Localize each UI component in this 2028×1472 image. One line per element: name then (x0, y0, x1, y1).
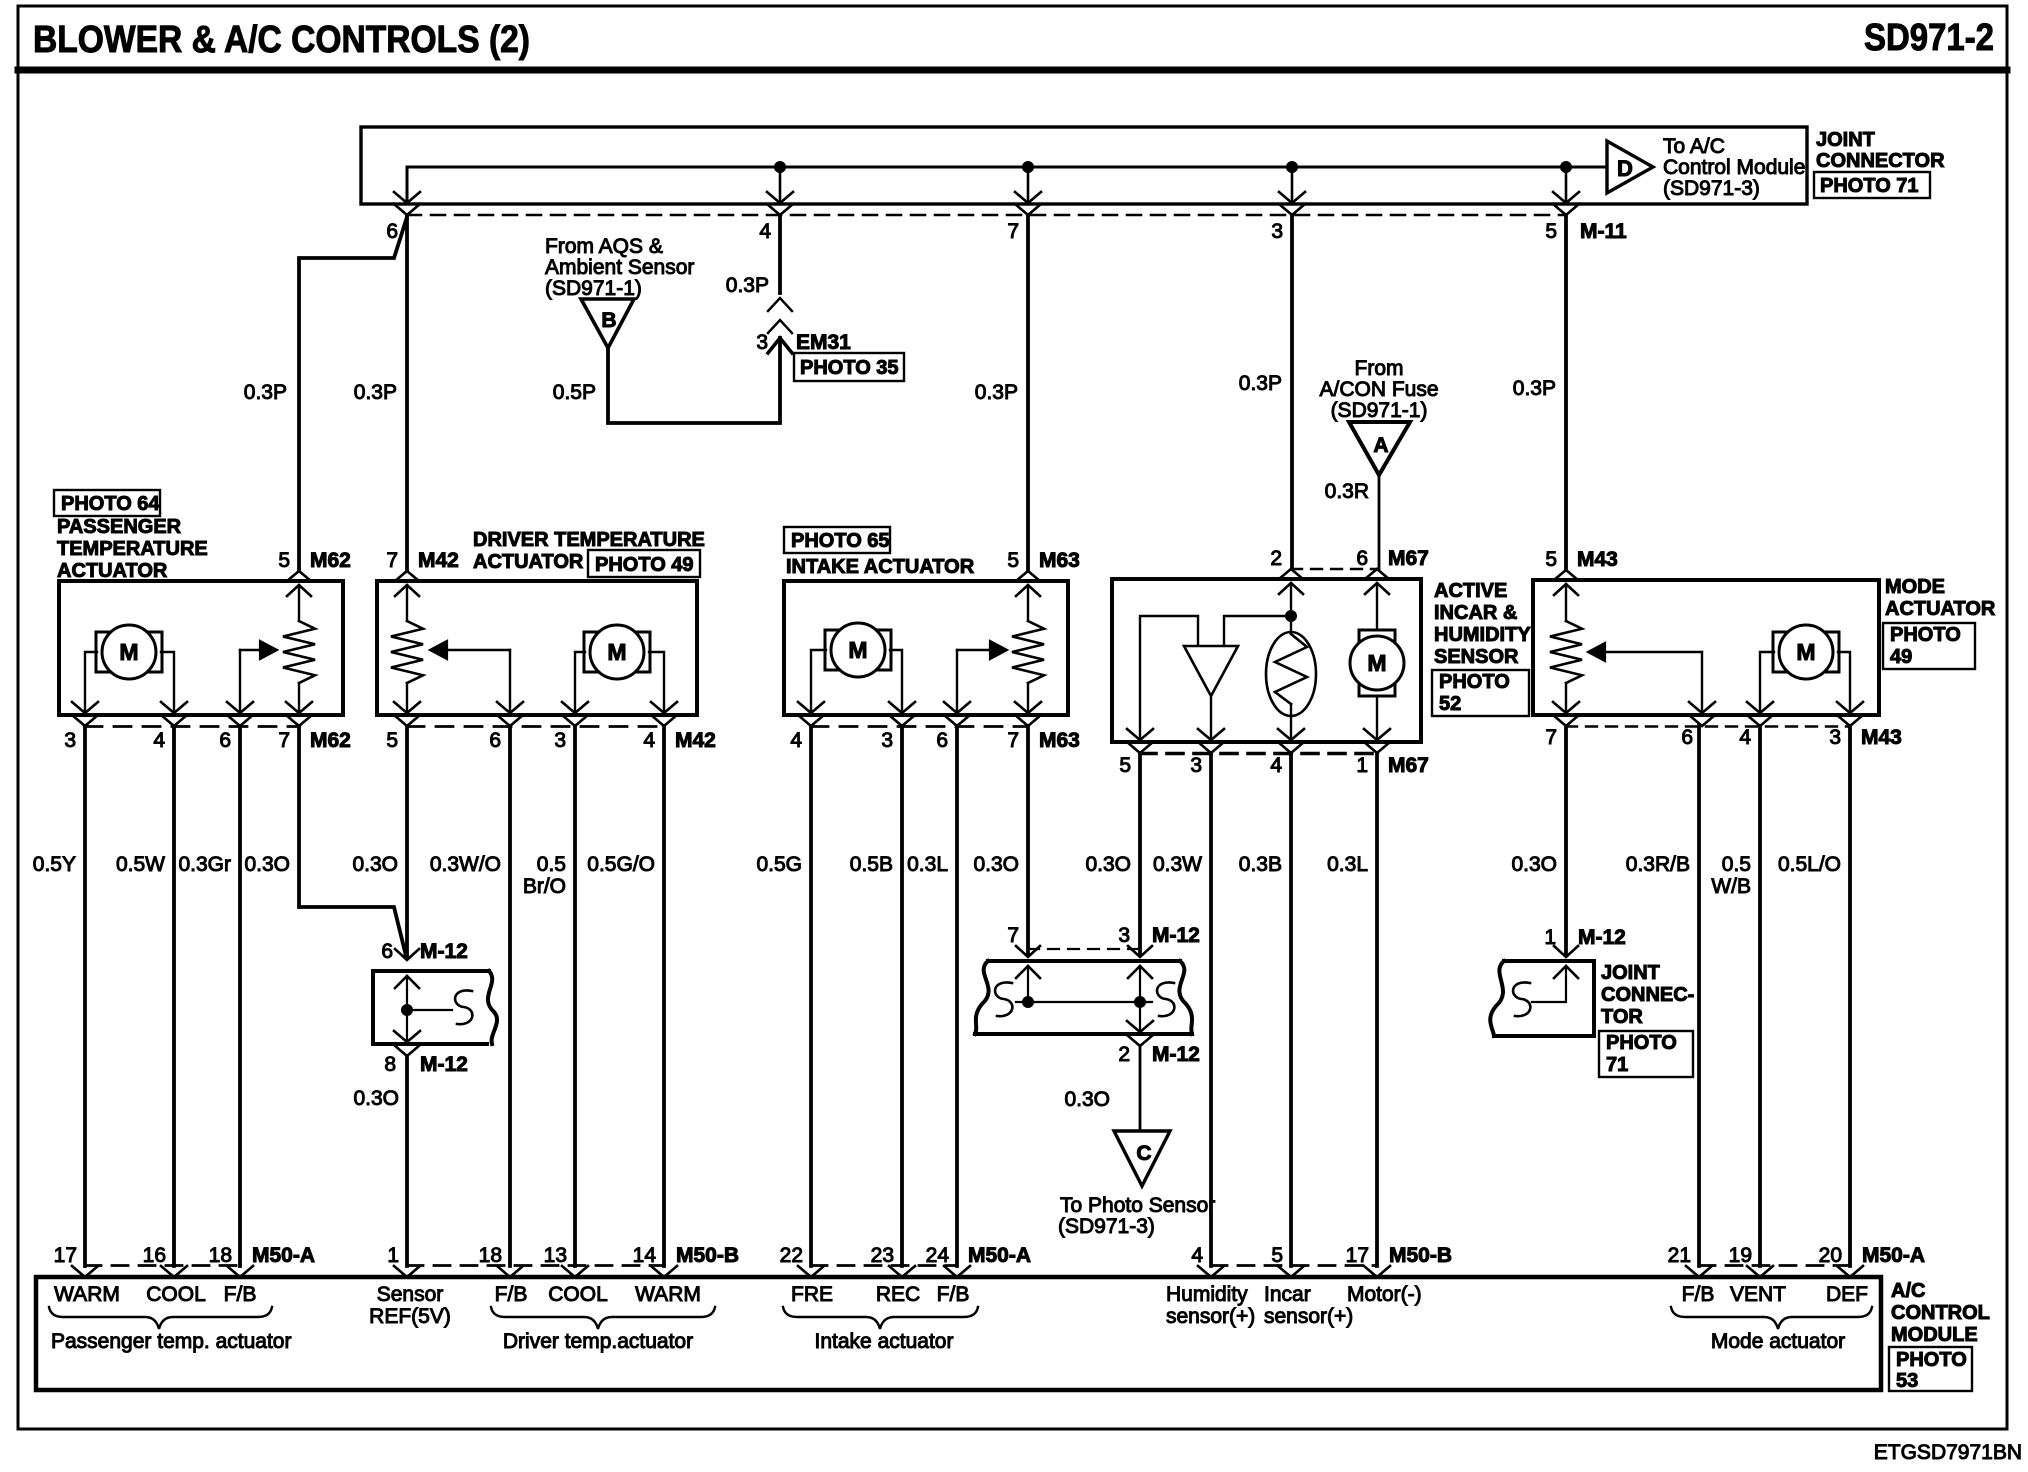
svg-text:HUMIDITY: HUMIDITY (1434, 624, 1531, 646)
wiper arrow in M42 (509, 650, 511, 713)
svg-text:PHOTO: PHOTO (1890, 624, 1961, 646)
module pin 23 (889, 1266, 915, 1277)
svg-text:INCAR &: INCAR & (1434, 602, 1517, 624)
svg-text:5: 5 (1271, 1244, 1283, 1267)
wire M42 pin5 to M-12 pin6 (0.3O) (405, 726, 409, 956)
svg-text:CONNECTOR: CONNECTOR (1816, 150, 1945, 172)
pin 6 top connector (1365, 569, 1389, 579)
pin 7 bottom connector (1015, 702, 1041, 713)
svg-text:6: 6 (936, 729, 948, 752)
wire x=85 down (83, 726, 87, 1266)
svg-text:PASSENGER: PASSENGER (57, 516, 182, 538)
wire x=1291 down (1289, 753, 1293, 1266)
svg-text:3: 3 (881, 729, 893, 752)
wire M62 motor right to pin4 (161, 652, 174, 713)
svg-text:sensor(+): sensor(+) (1166, 1305, 1255, 1328)
svg-text:7: 7 (278, 729, 290, 752)
header divider line (18, 67, 2007, 74)
wire M-12 pin2 to triangle C (0.3O) (1139, 1046, 1142, 1131)
bus drop wire x=1028 (1027, 167, 1030, 203)
svg-text:0.5W: 0.5W (116, 853, 165, 876)
bus pin 7 arrow (M-11) (1015, 192, 1041, 203)
M63 bottom dashed line (811, 725, 1028, 728)
svg-text:PHOTO 64: PHOTO 64 (61, 493, 160, 515)
svg-text:5: 5 (1119, 754, 1131, 777)
svg-text:WARM: WARM (635, 1283, 701, 1306)
pin 7 top connector (395, 571, 419, 581)
module connector dashed line 811-957 (811, 1264, 957, 1267)
svg-text:14: 14 (633, 1244, 657, 1267)
svg-text:6: 6 (381, 940, 393, 963)
svg-text:4: 4 (759, 220, 771, 243)
motor M in M63 (825, 630, 838, 670)
svg-text:22: 22 (780, 1244, 803, 1267)
svg-text:19: 19 (1729, 1244, 1752, 1267)
svg-text:Motor(-): Motor(-) (1347, 1283, 1422, 1306)
wiper arrow in M63 (956, 650, 958, 713)
svg-text:M-11: M-11 (1580, 220, 1627, 243)
incar thermistor (ellipse with zigzag) (1266, 632, 1316, 716)
pin 3 bottom connector (72, 702, 98, 713)
module connector dashed line 1211-1377 (1211, 1264, 1377, 1267)
svg-text:(SD971-1): (SD971-1) (545, 277, 642, 300)
bus inner wire (407, 167, 1605, 204)
svg-text:0.3R/B: 0.3R/B (1626, 853, 1690, 876)
svg-text:3: 3 (1190, 754, 1202, 777)
svg-text:Mode actuator: Mode actuator (1711, 1330, 1845, 1353)
svg-text:M50-A: M50-A (968, 1244, 1031, 1267)
bus junction dot x=1566 (1561, 162, 1572, 173)
wire M-12 pin8 to module pin1 (0.3O) (405, 1056, 409, 1266)
svg-text:53: 53 (1896, 1370, 1918, 1392)
pin 3 bottom connector (562, 702, 588, 713)
svg-text:To Photo Sensor: To Photo Sensor (1060, 1194, 1215, 1217)
svg-text:M62: M62 (310, 549, 351, 572)
A/C control module box (36, 1277, 1881, 1390)
svg-text:0.5: 0.5 (537, 853, 566, 876)
M67 wire: junction to humidity triangle (1224, 616, 1291, 646)
resistor in M43 (1565, 584, 1567, 621)
svg-text:5: 5 (278, 549, 290, 572)
svg-text:JOINT: JOINT (1816, 129, 1875, 151)
svg-text:0.5: 0.5 (1722, 853, 1751, 876)
svg-text:0.3P: 0.3P (726, 274, 769, 297)
svg-text:0.5G: 0.5G (756, 853, 802, 876)
wire x=811 down (809, 726, 813, 1266)
svg-text:Ambient Sensor: Ambient Sensor (545, 256, 694, 279)
svg-text:20: 20 (1819, 1244, 1842, 1267)
svg-text:0.3W: 0.3W (1153, 853, 1202, 876)
M67 bottom dashed line (bold) (1140, 752, 1377, 756)
bus junction dot x=1028 (1023, 162, 1034, 173)
svg-text:0.3O: 0.3O (244, 853, 290, 876)
svg-text:0.3O: 0.3O (353, 1087, 399, 1110)
svg-text:0.3R: 0.3R (1325, 480, 1369, 503)
svg-text:M43: M43 (1861, 726, 1902, 749)
svg-text:PHOTO: PHOTO (1896, 1349, 1967, 1371)
svg-text:17: 17 (54, 1244, 77, 1267)
label box PHOTO 35 (794, 353, 904, 381)
svg-text:REC: REC (876, 1283, 920, 1306)
svg-text:M67: M67 (1388, 547, 1429, 570)
svg-text:ACTUATOR: ACTUATOR (473, 551, 584, 573)
bus drop wire x=1292 (1291, 167, 1294, 203)
svg-text:COOL: COOL (548, 1283, 608, 1306)
svg-text:3: 3 (1829, 726, 1841, 749)
svg-text:A/C: A/C (1891, 1280, 1925, 1302)
wire: bus pin3 to M67 pin2 (0.3P) (1290, 215, 1294, 569)
resistor in M42 (406, 585, 408, 621)
svg-text:M: M (607, 639, 626, 665)
pin 2 top connector (1279, 569, 1303, 579)
svg-text:M-12: M-12 (1578, 926, 1626, 949)
module pin 18 (227, 1266, 253, 1277)
svg-text:5: 5 (1545, 548, 1557, 571)
M-12 middle top dashed (1028, 948, 1140, 950)
svg-text:(SD971-3): (SD971-3) (1058, 1215, 1155, 1238)
svg-text:From: From (1355, 357, 1404, 380)
module pin 19 (1747, 1266, 1773, 1277)
svg-text:EM31: EM31 (796, 331, 851, 354)
svg-text:24: 24 (926, 1244, 950, 1267)
M67 wire: pin5 feed to humidity triangle (1140, 616, 1198, 740)
svg-text:F/B: F/B (495, 1283, 528, 1306)
svg-text:INTAKE ACTUATOR: INTAKE ACTUATOR (786, 556, 975, 578)
module pin 5 (1278, 1266, 1304, 1277)
bus junction dot x=780 (775, 162, 786, 173)
svg-text:ACTUATOR: ACTUATOR (1885, 598, 1996, 620)
module pin 18 (497, 1266, 523, 1277)
svg-text:71: 71 (1606, 1054, 1628, 1076)
bus drop wire x=780 (779, 167, 782, 203)
svg-text:M63: M63 (1039, 729, 1080, 752)
svg-text:CONTROL: CONTROL (1891, 1302, 1990, 1324)
joint connector M-11 bus box (361, 127, 1807, 204)
svg-text:17: 17 (1346, 1244, 1369, 1267)
svg-text:M50-A: M50-A (252, 1244, 315, 1267)
humidity sensor triangle (1184, 646, 1238, 696)
wire M63 motor left to pin4 (811, 650, 826, 713)
svg-text:4: 4 (1191, 1244, 1203, 1267)
pin 5 bottom connector (1127, 729, 1153, 740)
svg-text:0.3O: 0.3O (1085, 853, 1131, 876)
svg-text:BLOWER & A/C CONTROLS (2): BLOWER & A/C CONTROLS (2) (33, 19, 530, 61)
svg-text:6: 6 (1356, 547, 1368, 570)
motor M in M42 (584, 632, 597, 672)
actuator M63 labels (784, 527, 890, 553)
svg-text:18: 18 (209, 1244, 232, 1267)
wire x=1699 down (1697, 726, 1701, 1266)
wire x=1377 down (1375, 753, 1379, 1266)
svg-text:FRE: FRE (791, 1283, 833, 1306)
svg-text:4: 4 (1270, 754, 1282, 777)
svg-text:Sensor: Sensor (377, 1283, 444, 1306)
svg-text:M43: M43 (1577, 548, 1618, 571)
svg-text:B: B (601, 309, 616, 332)
svg-text:0.3Gr: 0.3Gr (178, 853, 231, 876)
svg-text:0.3O: 0.3O (352, 853, 398, 876)
svg-text:3: 3 (756, 331, 768, 354)
svg-text:0.3O: 0.3O (1064, 1088, 1110, 1111)
svg-text:0.5B: 0.5B (850, 853, 893, 876)
brace: mode actuator group (1671, 1307, 1872, 1329)
svg-text:PHOTO 65: PHOTO 65 (791, 530, 890, 552)
svg-text:M50-B: M50-B (1389, 1244, 1452, 1267)
module pin 24 (944, 1266, 970, 1277)
M42 bottom dashed line (407, 725, 664, 728)
svg-text:4: 4 (1739, 726, 1751, 749)
svg-text:WARM: WARM (54, 1283, 120, 1306)
svg-text:0.3L: 0.3L (1327, 853, 1368, 876)
svg-text:DRIVER TEMPERATURE: DRIVER TEMPERATURE (473, 529, 705, 551)
svg-text:W/B: W/B (1711, 875, 1751, 898)
wire x=510 down (508, 726, 512, 1266)
wire: triangle B to EM31 (0.5P) (608, 338, 780, 423)
svg-text:M63: M63 (1039, 549, 1080, 572)
pin 1 bottom connector (1364, 729, 1390, 740)
pin 4 bottom connector (161, 702, 187, 713)
wire x=902 down (900, 726, 904, 1266)
svg-text:COOL: COOL (146, 1283, 206, 1306)
svg-text:Incar: Incar (1264, 1283, 1311, 1306)
actuator M62 box (59, 581, 343, 715)
pin 6 bottom connector (1689, 702, 1715, 713)
svg-text:21: 21 (1668, 1244, 1691, 1267)
pin 6 bottom connector (227, 702, 253, 713)
wire x=174 down (172, 726, 176, 1266)
svg-text:0.3L: 0.3L (907, 853, 948, 876)
svg-text:0.3W/O: 0.3W/O (430, 853, 501, 876)
svg-text:13: 13 (544, 1244, 567, 1267)
wire M67 pin5 to M-12 pin3 (0.3O) (1138, 753, 1142, 955)
module pin 22 (798, 1266, 824, 1277)
svg-text:M-12: M-12 (1152, 1043, 1200, 1066)
module connector dashed line 407-664 (407, 1264, 664, 1267)
svg-text:CONNEC-: CONNEC- (1601, 984, 1694, 1006)
motor M in M67 (1359, 630, 1395, 642)
svg-text:M62: M62 (310, 729, 351, 752)
svg-text:M: M (1796, 639, 1815, 665)
triangle D to A/C control module (1607, 141, 1653, 193)
svg-text:To A/C: To A/C (1663, 135, 1725, 158)
svg-text:6: 6 (386, 220, 398, 243)
wire M42 motor right to pin4 (649, 652, 664, 713)
svg-text:M-12: M-12 (420, 940, 468, 963)
M62 bottom dashed line (85, 725, 299, 728)
svg-text:M-12: M-12 (420, 1053, 468, 1076)
module connector dashed line 1699-1850 (1699, 1264, 1850, 1267)
wire: bus pin5 to M43 pin5 (0.3P) (1564, 215, 1568, 570)
wire M63 motor right to pin3 (890, 650, 902, 713)
wire M43 pin4 down (0.5 W/B) (1758, 726, 1762, 1266)
svg-text:PHOTO: PHOTO (1606, 1032, 1677, 1054)
svg-text:0.5L/O: 0.5L/O (1778, 853, 1841, 876)
svg-text:0.3P: 0.3P (354, 381, 397, 404)
pin 5 top connector (1016, 571, 1040, 581)
svg-text:6: 6 (219, 729, 231, 752)
module pin 16 (161, 1266, 187, 1277)
actuator M42 box (377, 581, 697, 715)
pin 3 bottom connector (1198, 729, 1224, 740)
svg-text:SENSOR: SENSOR (1434, 646, 1519, 668)
pin 7 bottom connector (286, 702, 312, 713)
svg-text:A: A (1373, 434, 1388, 457)
svg-text:0.3O: 0.3O (1511, 853, 1557, 876)
svg-text:F/B: F/B (1682, 1283, 1715, 1306)
svg-text:PHOTO 35: PHOTO 35 (800, 357, 899, 379)
svg-text:0.3P: 0.3P (1513, 377, 1556, 400)
svg-text:7: 7 (1007, 220, 1019, 243)
in-line connector EM31 pin 3 (768, 298, 792, 311)
motor M in M43 (1773, 632, 1786, 672)
svg-text:From AQS &: From AQS & (545, 235, 663, 258)
svg-text:JOINT: JOINT (1601, 962, 1660, 984)
brace: driver temp. actuator group (491, 1307, 715, 1329)
svg-text:18: 18 (479, 1244, 502, 1267)
actuator M43 box (1533, 580, 1879, 715)
M67 top dashed line (1291, 568, 1377, 570)
pin 4 bottom connector (1747, 702, 1773, 713)
svg-text:M42: M42 (418, 549, 459, 572)
pin 5 top connector (287, 571, 311, 581)
bus pin 4 arrow (M-11) (767, 192, 793, 203)
svg-text:DEF: DEF (1826, 1283, 1868, 1306)
svg-text:F/B: F/B (224, 1283, 257, 1306)
svg-text:2: 2 (1270, 547, 1282, 570)
svg-text:Control Module: Control Module (1663, 156, 1805, 179)
svg-text:52: 52 (1439, 693, 1461, 715)
wire M43 pin7 to M-12 pin1 (0.3O) (1564, 726, 1568, 955)
svg-text:0.3P: 0.3P (244, 381, 287, 404)
svg-text:3: 3 (64, 729, 76, 752)
svg-text:7: 7 (1007, 924, 1019, 947)
pin 5 bottom connector (394, 702, 420, 713)
resistor in M63 (1027, 585, 1029, 621)
bus junction dot x=1292 (1287, 162, 1298, 173)
module pin 13 (562, 1266, 588, 1277)
svg-text:5: 5 (1545, 220, 1557, 243)
motor M in M62 (96, 632, 109, 672)
svg-text:(SD971-1): (SD971-1) (1331, 399, 1428, 422)
bus pin 5 arrow (M-11) (1553, 192, 1579, 203)
svg-text:0.3O: 0.3O (973, 853, 1019, 876)
module connector dashed line 85-240 (85, 1264, 240, 1267)
wire M43 motor left to pin4 (1760, 652, 1774, 713)
svg-text:VENT: VENT (1730, 1283, 1786, 1306)
svg-text:7: 7 (1007, 729, 1019, 752)
pin 4 bottom connector (651, 702, 677, 713)
svg-text:Intake actuator: Intake actuator (815, 1330, 954, 1353)
wire: triangle A to M67 pin6 (0.3R) (1378, 475, 1381, 569)
svg-text:ETGSD7971BN: ETGSD7971BN (1874, 1441, 2022, 1464)
svg-text:0.5P: 0.5P (553, 381, 596, 404)
sensor M67 box (1112, 579, 1421, 742)
svg-text:PHOTO 49: PHOTO 49 (595, 554, 694, 576)
svg-text:ACTIVE: ACTIVE (1434, 580, 1507, 602)
svg-text:Passenger temp. actuator: Passenger temp. actuator (51, 1330, 291, 1353)
svg-text:Driver temp.actuator: Driver temp.actuator (503, 1330, 693, 1353)
svg-text:Br/O: Br/O (523, 875, 566, 898)
svg-text:0.5Y: 0.5Y (33, 853, 76, 876)
pin 3 bottom connector (889, 702, 915, 713)
svg-text:7: 7 (1545, 726, 1557, 749)
wire M62 motor left to pin3 (85, 652, 97, 713)
svg-text:3: 3 (1118, 924, 1130, 947)
svg-text:TOR: TOR (1601, 1006, 1643, 1028)
wire M63 pin7 to M-12 pin7 (0.3O) (1026, 726, 1030, 955)
svg-text:2: 2 (1118, 1043, 1130, 1066)
bus pin 6 arrow (M-11) (394, 192, 420, 203)
svg-text:MODE: MODE (1885, 576, 1945, 598)
svg-text:Humidity: Humidity (1166, 1283, 1248, 1306)
svg-text:3: 3 (554, 729, 566, 752)
bus pin 3 arrow (M-11) (1279, 192, 1305, 203)
svg-text:7: 7 (386, 549, 398, 572)
module pin 4 (1198, 1266, 1224, 1277)
pin 7 bottom connector (1553, 702, 1579, 713)
actuator M63 box (784, 581, 1068, 715)
wire: bus pin4 to EM31 (0.3P) (778, 215, 782, 293)
wire M43 motor right to pin3 (1838, 652, 1850, 713)
svg-text:4: 4 (790, 729, 802, 752)
svg-text:D: D (1617, 156, 1633, 181)
module pin 14 (651, 1266, 677, 1277)
svg-text:REF(5V): REF(5V) (369, 1305, 451, 1328)
svg-text:6: 6 (1681, 726, 1693, 749)
svg-text:1: 1 (1356, 754, 1368, 777)
pin 4 bottom connector (798, 702, 824, 713)
svg-text:6: 6 (489, 729, 501, 752)
svg-text:SD971-2: SD971-2 (1864, 17, 1994, 59)
wire x=1211 down (1209, 753, 1213, 1266)
wire x=664 down (662, 726, 666, 1266)
wire: bus pin6 jog to M62 pin5 (0.3P) (299, 217, 407, 571)
wire: bus pin6 to M42 pin7 (0.3P) (405, 215, 409, 571)
M67 wire: pin2 to junction (1290, 583, 1292, 634)
svg-text:sensor(+): sensor(+) (1264, 1305, 1353, 1328)
svg-text:0.3P: 0.3P (975, 381, 1018, 404)
svg-text:M50-A: M50-A (1862, 1244, 1925, 1267)
svg-text:(SD971-3): (SD971-3) (1663, 177, 1760, 200)
svg-text:0.5G/O: 0.5G/O (587, 853, 655, 876)
actuator M62 labels (54, 490, 160, 516)
svg-text:0.3P: 0.3P (1239, 372, 1282, 395)
module pin 17 (1364, 1266, 1390, 1277)
triangle C to photo sensor (1114, 1131, 1170, 1186)
pin 5 top connector (1554, 570, 1578, 580)
svg-text:M50-B: M50-B (676, 1244, 739, 1267)
pin 3 bottom connector (1837, 702, 1863, 713)
svg-text:F/B: F/B (937, 1283, 970, 1306)
wiper arrow in M43 (1701, 652, 1703, 713)
M43 bottom dashed line (1566, 725, 1850, 727)
svg-text:M: M (1367, 650, 1386, 676)
wire M42 motor left to pin3 (575, 652, 585, 713)
brace: intake actuator group (783, 1307, 978, 1329)
svg-text:PHOTO: PHOTO (1439, 671, 1510, 693)
svg-text:M: M (119, 639, 138, 665)
pin 6 bottom connector (497, 702, 523, 713)
wiper arrow in M62 (239, 650, 241, 713)
svg-text:0.3B: 0.3B (1239, 853, 1282, 876)
svg-text:3: 3 (1271, 220, 1283, 243)
svg-text:TEMPERATURE: TEMPERATURE (57, 538, 208, 560)
svg-text:M-12: M-12 (1152, 924, 1200, 947)
wire M42 pin3 down (0.5 Br/O) (573, 726, 577, 1266)
wire x=1850 down (1848, 726, 1852, 1266)
M67 internal junction dot (1286, 611, 1297, 622)
M-11 connector dashed line (407, 214, 1566, 217)
